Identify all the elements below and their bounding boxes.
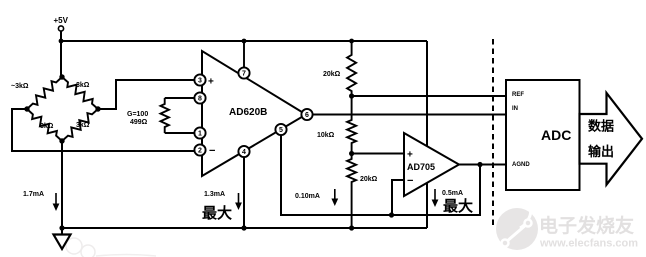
svg-text:+: +	[208, 77, 214, 88]
svg-text:3kΩ: 3kΩ	[76, 82, 90, 89]
resistor 20k lower	[347, 154, 356, 228]
svg-text:5: 5	[279, 127, 283, 134]
wire pin5 to feedback node	[281, 135, 392, 215]
svg-text:499Ω: 499Ω	[130, 119, 148, 126]
svg-text:AD705: AD705	[407, 162, 435, 172]
ground	[54, 228, 71, 249]
node bridge right	[95, 106, 100, 111]
pin 5	[275, 124, 286, 135]
junction divider top	[349, 39, 354, 44]
svg-text:IN: IN	[512, 106, 518, 112]
svg-text:1.7mA: 1.7mA	[23, 191, 44, 198]
arrow 0.10mA	[331, 189, 338, 206]
arrow 1.3mA	[235, 193, 242, 210]
pin 6	[301, 109, 312, 120]
wire top rail	[61, 40, 427, 42]
resistor bridge BR 3k	[62, 109, 98, 141]
wire V+ drop to AD705	[426, 41, 428, 146]
resistor bridge TR 3k	[62, 77, 98, 109]
watermark remnant bottom-left	[66, 238, 156, 257]
svg-text:7: 7	[242, 71, 246, 78]
wire AD705 feedback loop	[392, 165, 480, 216]
svg-text:3: 3	[198, 78, 202, 85]
resistor bridge TL ~3k	[27, 77, 62, 109]
resistor 10k	[347, 96, 356, 154]
svg-text:1.3mA: 1.3mA	[204, 191, 225, 198]
svg-text:20kΩ: 20kΩ	[360, 176, 378, 183]
svg-text:www.elecfans.com: www.elecfans.com	[539, 238, 638, 250]
arrow 0.5mA	[432, 189, 439, 207]
resistor bridge BL 3k	[27, 109, 62, 141]
svg-text:3kΩ: 3kΩ	[76, 122, 90, 129]
svg-text:2: 2	[198, 148, 202, 155]
svg-text:REF: REF	[512, 92, 524, 98]
wire bridge left to pin2	[12, 109, 197, 151]
arrow 1.7mA	[53, 193, 60, 211]
wire pin6 to ADC IN	[313, 114, 506, 116]
svg-text:AD620B: AD620B	[229, 107, 267, 118]
svg-text:8: 8	[198, 96, 202, 103]
+5V terminal	[58, 26, 63, 31]
svg-text:1: 1	[198, 131, 202, 138]
pin 8	[194, 92, 205, 103]
wire bridge bottom to ground rail	[61, 141, 63, 228]
svg-text:+5V: +5V	[54, 16, 69, 25]
junction divider mid	[349, 151, 354, 156]
svg-text:ADC: ADC	[541, 127, 571, 143]
svg-text:G=100: G=100	[127, 111, 148, 118]
wire pin4 down	[243, 157, 245, 228]
svg-text:电子发烧友: 电子发烧友	[539, 214, 634, 237]
op-amp U2 AD705	[404, 133, 459, 196]
node bridge bottom	[59, 138, 64, 143]
op-amp U1 AD620B	[202, 51, 306, 176]
wire divider mid to AD705 plus	[352, 153, 404, 155]
pin 3	[194, 74, 205, 85]
node bridge top	[59, 74, 64, 79]
resistor RG 499 G=100	[165, 97, 197, 99]
junction top rail	[59, 39, 64, 44]
pin 7 wire	[243, 41, 245, 68]
svg-text:最大: 最大	[202, 204, 232, 222]
svg-text:~3kΩ: ~3kΩ	[11, 83, 29, 90]
data output block arrow	[580, 93, 643, 185]
pin 4	[238, 146, 249, 157]
svg-text:0.10mA: 0.10mA	[295, 193, 320, 200]
svg-text:最大: 最大	[443, 197, 473, 215]
junction REF tap	[349, 93, 354, 98]
junction output	[477, 162, 482, 167]
wire AD705 output to ADC AGND	[459, 164, 506, 166]
wire REF tap to ADC REF	[352, 95, 506, 97]
svg-text:20kΩ: 20kΩ	[323, 71, 341, 78]
svg-text:+: +	[407, 150, 413, 161]
junction pin4 rail	[241, 225, 246, 230]
svg-text:6: 6	[305, 112, 309, 119]
svg-text:AGND: AGND	[512, 162, 530, 168]
pin 1	[194, 127, 205, 138]
svg-text:数据: 数据	[588, 119, 614, 134]
junction ground rail left	[59, 225, 64, 230]
dashed boundary line	[492, 39, 494, 226]
svg-text:10kΩ: 10kΩ	[317, 132, 335, 139]
wire V- AD705 to rail	[426, 183, 428, 228]
svg-text:4: 4	[242, 149, 246, 156]
junction divider rail	[349, 225, 354, 230]
svg-text:3kΩ: 3kΩ	[40, 123, 54, 130]
watermark logo	[496, 206, 538, 250]
junction pin7	[242, 39, 247, 44]
pin 2	[194, 144, 205, 155]
ADC block	[506, 80, 580, 190]
svg-text:−: −	[209, 145, 215, 157]
wire bottom ground rail	[62, 227, 427, 229]
wire +5V down to bridge top	[60, 31, 62, 77]
svg-text:−: −	[407, 175, 413, 187]
pin 7	[238, 67, 249, 78]
wire bridge right to pin3	[98, 80, 197, 109]
svg-text:0.5mA: 0.5mA	[442, 190, 463, 197]
junction feedback	[389, 212, 394, 217]
node bridge left	[24, 106, 29, 111]
resistor 20k upper	[347, 41, 356, 96]
svg-text:输出: 输出	[588, 144, 614, 159]
